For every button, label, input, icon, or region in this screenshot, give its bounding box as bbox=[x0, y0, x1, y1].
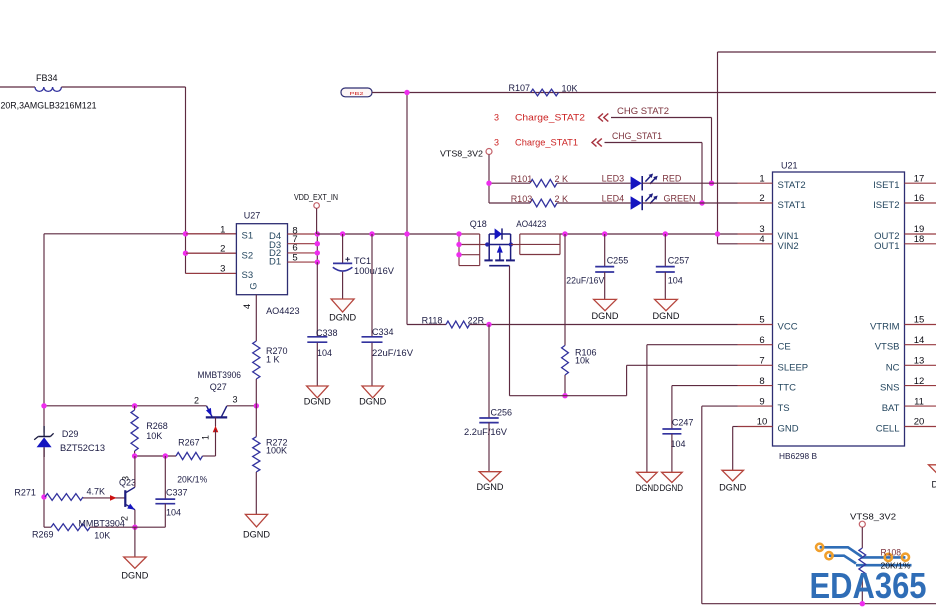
pin stub U21 BAT pin 11 bbox=[905, 405, 936, 407]
pin stub U21 TTC pin 8 bbox=[738, 385, 773, 387]
svg-text:C337: C337 bbox=[166, 487, 188, 497]
svg-text:3: 3 bbox=[220, 264, 225, 275]
pin stub U27 D2 bbox=[288, 252, 318, 254]
ground bbox=[662, 472, 683, 482]
svg-text:DGND: DGND bbox=[243, 530, 271, 540]
junction bbox=[562, 393, 567, 398]
capacitor C255 bbox=[566, 234, 628, 299]
svg-text:12: 12 bbox=[914, 376, 925, 387]
svg-text:STAT1: STAT1 bbox=[778, 200, 806, 211]
svg-text:VIN2: VIN2 bbox=[778, 241, 799, 252]
capacitor C337 bbox=[155, 456, 187, 527]
wire left drop to D29 branch bbox=[43, 234, 45, 433]
svg-text:R269: R269 bbox=[32, 530, 54, 540]
svg-text:Charge_STAT1: Charge_STAT1 bbox=[515, 138, 578, 148]
svg-text:22uF/16V: 22uF/16V bbox=[372, 348, 413, 358]
svg-text:15: 15 bbox=[914, 315, 925, 326]
pin stub U27 S1 bbox=[186, 233, 236, 235]
diode D29 zener BZT52C13 bbox=[34, 426, 105, 457]
wire Q18 gate to SLEEP bbox=[510, 266, 738, 396]
wire top-right input bbox=[718, 52, 936, 244]
svg-text:PB2: PB2 bbox=[350, 91, 365, 96]
op-amp U27 (load switch AO4423) bbox=[236, 210, 287, 294]
junction bbox=[486, 322, 491, 327]
svg-text:R118: R118 bbox=[422, 316, 443, 326]
wire Q27 emitter down bbox=[215, 430, 217, 456]
junction bbox=[709, 181, 714, 186]
wire LED4 to STAT1 pin 2 bbox=[642, 202, 737, 204]
pin stub U21 NC pin 13 bbox=[905, 364, 936, 366]
svg-text:CELL: CELL bbox=[876, 424, 900, 435]
svg-text:NC: NC bbox=[886, 362, 900, 373]
svg-text:R107: R107 bbox=[509, 83, 531, 93]
junction bbox=[315, 250, 320, 255]
ground bbox=[655, 299, 678, 310]
transistor Q18 (P-MOSFET AO4423) bbox=[470, 219, 547, 266]
svg-text:STAT2: STAT2 bbox=[778, 180, 806, 191]
svg-text:OUT1: OUT1 bbox=[874, 241, 899, 252]
ground bbox=[245, 514, 267, 527]
resistor R103 bbox=[511, 194, 568, 207]
svg-text:Q27: Q27 bbox=[210, 382, 227, 392]
wire Q18 drain pin group bbox=[511, 234, 560, 255]
ground bbox=[637, 472, 658, 482]
svg-text:R271: R271 bbox=[14, 487, 36, 497]
net flag Charge_STAT1 bbox=[494, 138, 602, 148]
junction bbox=[340, 231, 345, 236]
capacitor C334 bbox=[362, 234, 414, 386]
junction bbox=[663, 231, 668, 236]
transistor Q23 (NPN MMBT3904) bbox=[119, 476, 136, 521]
pin stub U21 VIN2 pin 4 bbox=[738, 243, 773, 245]
pin stub U21 VCC pin 5 bbox=[738, 324, 773, 326]
svg-text:TTC: TTC bbox=[778, 383, 797, 394]
wire VTS8 to R108 bbox=[861, 527, 863, 548]
svg-text:7: 7 bbox=[759, 356, 764, 367]
svg-text:VTRIM: VTRIM bbox=[870, 322, 900, 333]
wire CE to ground bbox=[647, 345, 738, 473]
ground bbox=[124, 557, 147, 568]
svg-text:AO4423: AO4423 bbox=[516, 219, 546, 229]
junction bbox=[41, 403, 46, 408]
svg-text:10K: 10K bbox=[146, 431, 162, 441]
svg-text:VTS8_3V2: VTS8_3V2 bbox=[850, 512, 896, 522]
svg-text:16: 16 bbox=[914, 193, 925, 204]
wire TTC bbox=[672, 386, 738, 429]
pin stub U21 TS pin 9 bbox=[738, 405, 773, 407]
svg-text:3: 3 bbox=[121, 476, 131, 481]
svg-text:VDD_EXT_IN: VDD_EXT_IN bbox=[294, 192, 338, 202]
svg-text:10K: 10K bbox=[562, 84, 578, 94]
junction bbox=[132, 453, 137, 458]
resistor R270 bbox=[253, 295, 288, 406]
svg-text:2.2uF/16V: 2.2uF/16V bbox=[464, 427, 507, 437]
svg-text:S3: S3 bbox=[242, 270, 254, 281]
junction bbox=[404, 90, 409, 95]
svg-text:104: 104 bbox=[668, 275, 683, 285]
svg-text:10: 10 bbox=[757, 417, 768, 428]
svg-text:8: 8 bbox=[759, 376, 764, 387]
pin stub U27 D4 bbox=[288, 233, 318, 235]
pin stub U21 ISET2 pin 16 bbox=[905, 202, 936, 204]
svg-text:C247: C247 bbox=[672, 417, 694, 427]
capacitor TC1 (polarized 100u/16V) bbox=[333, 234, 394, 299]
ground (partial, right edge) bbox=[929, 465, 936, 490]
wire D29 anode down bbox=[43, 447, 45, 527]
svg-text:GND: GND bbox=[778, 424, 799, 435]
svg-text:4: 4 bbox=[759, 234, 764, 245]
resistor R269 bbox=[32, 519, 125, 541]
junction bbox=[456, 242, 461, 247]
junction bbox=[183, 251, 188, 256]
wire VTS8 to R101/R103 bbox=[489, 155, 530, 204]
junction bbox=[456, 252, 461, 257]
junction bbox=[562, 231, 567, 236]
terminal VTS8_3V2 bottom bbox=[850, 512, 896, 528]
svg-text:ISET1: ISET1 bbox=[873, 180, 899, 191]
svg-text:104: 104 bbox=[317, 348, 332, 358]
svg-text:14: 14 bbox=[914, 335, 925, 346]
svg-text:10K: 10K bbox=[94, 531, 110, 541]
ground bbox=[362, 386, 383, 398]
svg-text:20: 20 bbox=[914, 417, 925, 428]
svg-text:DGND: DGND bbox=[635, 483, 659, 493]
svg-text:S2: S2 bbox=[242, 250, 254, 261]
junction bbox=[132, 525, 137, 530]
power port symbol bbox=[341, 88, 372, 97]
pin stub U21 CE pin 6 bbox=[738, 344, 773, 346]
pin stub U21 ISET1 pin 17 bbox=[905, 182, 936, 184]
pin stub U21 STAT2 pin 1 bbox=[738, 182, 773, 184]
terminal VDD_EXT_IN bbox=[294, 192, 338, 208]
svg-text:HB6298 B: HB6298 B bbox=[779, 452, 817, 461]
svg-text:18: 18 bbox=[914, 234, 925, 245]
svg-text:CE: CE bbox=[778, 342, 791, 353]
pin stub U21 OUT2 pin 19 bbox=[905, 233, 936, 235]
pin stub U27 D1 bbox=[288, 261, 318, 263]
resistor R106 bbox=[562, 234, 597, 396]
svg-text:1: 1 bbox=[220, 225, 225, 236]
net flag Charge_STAT2 bbox=[494, 113, 608, 123]
LED LED4 bbox=[602, 193, 696, 210]
svg-text:DGND: DGND bbox=[304, 397, 332, 407]
resistor R268 bbox=[131, 406, 168, 456]
pin stub U21 VTRIM pin 15 bbox=[905, 324, 936, 326]
svg-text:SLEEP: SLEEP bbox=[778, 362, 809, 373]
wire TS to battery sense bbox=[702, 406, 936, 604]
svg-text:1: 1 bbox=[759, 173, 764, 184]
svg-text:22uF/16V: 22uF/16V bbox=[566, 275, 604, 285]
svg-text:DGND: DGND bbox=[477, 482, 505, 492]
svg-text:DGND: DGND bbox=[932, 480, 936, 490]
svg-text:DGND: DGND bbox=[121, 571, 149, 581]
svg-text:4: 4 bbox=[242, 304, 253, 309]
pin stub U27 D3 bbox=[288, 243, 318, 245]
svg-text:U27: U27 bbox=[244, 210, 261, 220]
svg-text:MMBT3906: MMBT3906 bbox=[198, 370, 242, 380]
svg-text:DGND: DGND bbox=[719, 483, 747, 493]
svg-text:11: 11 bbox=[914, 396, 924, 407]
wire D-pin tie bbox=[316, 234, 318, 262]
svg-text:LED3: LED3 bbox=[602, 174, 625, 184]
pin stub U21 GND pin 10 bbox=[738, 426, 773, 428]
svg-text:R268: R268 bbox=[146, 421, 168, 431]
ground bbox=[594, 299, 617, 310]
svg-text:DGND: DGND bbox=[660, 483, 684, 493]
pin stub U21 OUT1 pin 18 bbox=[905, 243, 936, 245]
junction bbox=[183, 231, 188, 236]
resistor R101 bbox=[511, 174, 568, 187]
svg-text:ISET2: ISET2 bbox=[873, 200, 899, 211]
svg-text:2 K: 2 K bbox=[555, 174, 569, 184]
junction bbox=[715, 231, 720, 236]
wire R101 to LED3 bbox=[557, 182, 631, 184]
junction bbox=[315, 241, 320, 246]
transistor Q27 (PNP MMBT3906) bbox=[194, 370, 241, 440]
svg-text:EDA365: EDA365 bbox=[810, 565, 927, 606]
svg-text:9: 9 bbox=[759, 396, 764, 407]
svg-text:AO4423: AO4423 bbox=[266, 306, 300, 316]
svg-text:1 K: 1 K bbox=[266, 354, 280, 364]
svg-text:13: 13 bbox=[914, 356, 925, 367]
resistor R267 bbox=[176, 437, 207, 484]
svg-text:VTSB: VTSB bbox=[875, 342, 900, 353]
wire R271 to Q23 base bbox=[83, 497, 125, 499]
svg-text:TS: TS bbox=[778, 403, 790, 414]
wire CHG_STAT1 to STAT1 bbox=[605, 143, 703, 204]
svg-text:100u/16V: 100u/16V bbox=[354, 266, 394, 276]
svg-text:C338: C338 bbox=[316, 328, 338, 338]
wire Q18 source pin group bbox=[459, 234, 487, 266]
junction bbox=[369, 231, 374, 236]
svg-text:DGND: DGND bbox=[592, 311, 620, 321]
svg-text:3: 3 bbox=[494, 113, 499, 123]
wire R269 to C337 bbox=[90, 526, 165, 528]
svg-text:1: 1 bbox=[201, 435, 211, 440]
wire S1 rail bbox=[44, 233, 236, 235]
ground bbox=[722, 470, 744, 481]
svg-text:2: 2 bbox=[759, 193, 764, 204]
svg-text:104: 104 bbox=[671, 439, 686, 449]
LED LED3 bbox=[602, 174, 682, 191]
wire VIN rail bbox=[560, 233, 738, 235]
svg-text:C256: C256 bbox=[491, 408, 513, 418]
svg-text:D1: D1 bbox=[269, 256, 281, 267]
svg-text:DGND: DGND bbox=[359, 397, 387, 407]
capacitor C247 bbox=[662, 417, 693, 472]
junction bbox=[699, 200, 704, 205]
resistor R272 bbox=[253, 406, 288, 515]
logo pads and traces bbox=[816, 544, 912, 566]
svg-text:LED4: LED4 bbox=[602, 194, 625, 204]
svg-text:RED: RED bbox=[662, 174, 682, 184]
svg-text:3: 3 bbox=[494, 138, 499, 148]
junction bbox=[132, 403, 137, 408]
ground bbox=[331, 299, 354, 312]
pin stub U21 CELL pin 20 bbox=[905, 426, 936, 428]
wire R103 to LED4 bbox=[557, 202, 631, 204]
capacitor C256 bbox=[464, 325, 512, 472]
junction bbox=[41, 494, 46, 499]
svg-text:S1: S1 bbox=[242, 231, 254, 242]
junction bbox=[254, 403, 259, 408]
svg-text:VTS8_3V2: VTS8_3V2 bbox=[440, 149, 483, 159]
wire R267 row bbox=[135, 455, 176, 457]
svg-text:VCC: VCC bbox=[778, 322, 798, 333]
svg-text:C255: C255 bbox=[607, 255, 629, 265]
svg-text:Charge_STAT2: Charge_STAT2 bbox=[515, 113, 585, 123]
junction bbox=[456, 231, 461, 236]
svg-text:G: G bbox=[249, 282, 260, 289]
wire R108 to TS net bbox=[861, 576, 863, 604]
svg-text:20R,3AMGLB3216M121: 20R,3AMGLB3216M121 bbox=[1, 101, 97, 111]
svg-text:3: 3 bbox=[233, 394, 238, 404]
svg-text:5: 5 bbox=[759, 315, 764, 326]
svg-text:D29: D29 bbox=[62, 429, 79, 439]
junction bbox=[602, 231, 607, 236]
svg-text:SNS: SNS bbox=[880, 383, 900, 394]
svg-text:DGND: DGND bbox=[653, 311, 681, 321]
svg-text:104: 104 bbox=[166, 507, 181, 517]
svg-text:R103: R103 bbox=[511, 194, 533, 204]
svg-text:Q18: Q18 bbox=[470, 219, 487, 229]
svg-text:100K: 100K bbox=[266, 446, 287, 456]
pin stub U27 S2 bbox=[186, 252, 236, 254]
ground bbox=[307, 386, 328, 398]
wire S2/S3 tie bbox=[186, 234, 237, 274]
junction bbox=[860, 601, 865, 606]
resistor R271 bbox=[14, 486, 105, 500]
pin stub U21 VIN1 pin 3 bbox=[738, 233, 773, 235]
wire VCC bbox=[470, 324, 738, 326]
capacitor C338 bbox=[307, 262, 337, 386]
ferrite bead FB34 bbox=[0, 73, 97, 111]
junction bbox=[315, 231, 320, 236]
svg-text:CHG STAT2: CHG STAT2 bbox=[617, 106, 669, 116]
wire base rail y=405.8 bbox=[44, 405, 207, 407]
svg-text:TC1: TC1 bbox=[354, 256, 371, 266]
svg-text:17: 17 bbox=[914, 173, 925, 184]
capacitor C257 bbox=[656, 234, 689, 299]
wire GND pin 10 bbox=[733, 427, 738, 471]
junction bbox=[163, 453, 168, 458]
pin stub U21 STAT1 pin 2 bbox=[738, 202, 773, 204]
terminal VTS8_3V2 bbox=[440, 149, 492, 159]
pin stub U27 S3 bbox=[186, 272, 236, 274]
resistor R118 bbox=[407, 316, 485, 328]
junction bbox=[404, 231, 409, 236]
junction bbox=[486, 181, 491, 186]
svg-text:C257: C257 bbox=[668, 255, 690, 265]
svg-text:R267: R267 bbox=[178, 437, 200, 447]
resistor R108 bbox=[859, 548, 911, 576]
svg-text:R101: R101 bbox=[511, 174, 533, 184]
svg-text:6: 6 bbox=[759, 335, 764, 346]
svg-text:DGND: DGND bbox=[329, 313, 357, 323]
svg-text:10k: 10k bbox=[575, 356, 590, 366]
svg-text:BZT52C13: BZT52C13 bbox=[60, 443, 105, 453]
svg-text:BAT: BAT bbox=[882, 403, 900, 414]
wire R267 to Q27 emitter bbox=[203, 455, 216, 457]
wire Q23 collector up bbox=[134, 456, 136, 487]
wire VDD rail bbox=[317, 233, 459, 235]
svg-text:4.7K: 4.7K bbox=[87, 486, 106, 496]
wire node down from port net bbox=[406, 93, 408, 325]
svg-text:U21: U21 bbox=[781, 161, 798, 171]
IC U21 charger HB6298B bbox=[773, 161, 905, 461]
svg-text:CHG_STAT1: CHG_STAT1 bbox=[612, 131, 662, 141]
ground bbox=[479, 472, 501, 482]
svg-text:C334: C334 bbox=[372, 327, 394, 337]
pin stub U21 VTSB pin 14 bbox=[905, 344, 936, 346]
svg-text:2: 2 bbox=[194, 395, 199, 405]
wire CHG_STAT2 to STAT2 bbox=[611, 118, 712, 184]
svg-text:2: 2 bbox=[220, 244, 225, 255]
wire Q23 emitter to ground bbox=[134, 527, 136, 557]
svg-text:R108: R108 bbox=[881, 548, 902, 558]
wire Q27 collector to node bbox=[227, 405, 256, 407]
pin stub U21 SNS pin 12 bbox=[905, 385, 936, 387]
wire VDD_EXT_IN down bbox=[316, 208, 318, 234]
svg-text:FB34: FB34 bbox=[36, 73, 58, 83]
junction bbox=[315, 259, 320, 264]
wire LED3 to STAT2 pin 1 bbox=[642, 182, 737, 184]
resistor R107 bbox=[509, 83, 578, 96]
svg-text:GREEN: GREEN bbox=[664, 194, 696, 204]
wire Q23 emitter down bbox=[134, 510, 136, 528]
wire port to R107 net bbox=[372, 92, 936, 94]
pin stub U21 SLEEP pin 7 bbox=[738, 364, 773, 366]
svg-text:20K/1%: 20K/1% bbox=[177, 474, 207, 484]
wire FB34 to U27 S-pins bbox=[61, 87, 185, 234]
